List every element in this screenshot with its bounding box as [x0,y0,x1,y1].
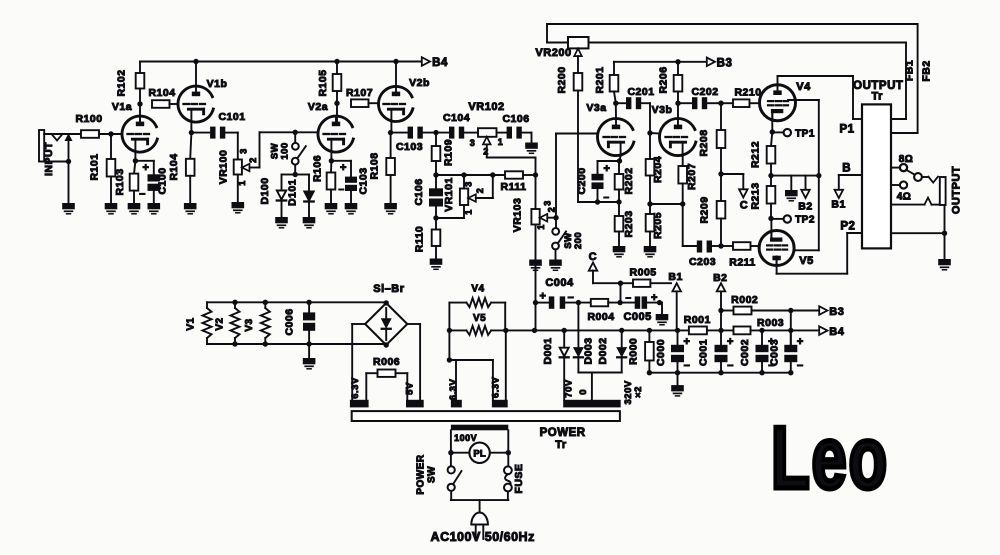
svg-text:3: 3 [470,138,476,148]
svg-text:6.3V: 6.3V [448,379,459,401]
svg-text:R200: R200 [556,66,568,93]
svg-text:TP1: TP1 [795,129,815,140]
svg-text:P1: P1 [839,124,854,136]
svg-text:FB1: FB1 [904,60,916,81]
svg-text:1: 1 [536,224,546,230]
svg-text:R100: R100 [75,113,102,125]
svg-text:2: 2 [547,207,557,213]
svg-text:VR102: VR102 [468,101,504,113]
svg-text:R211: R211 [729,257,756,269]
svg-text:R108: R108 [369,152,381,179]
svg-text:–: – [684,360,691,372]
svg-text:C203: C203 [689,256,716,268]
svg-text:R109: R109 [443,139,455,166]
svg-text:V2a: V2a [308,101,328,113]
svg-text:R207: R207 [686,163,698,190]
svg-text:3: 3 [543,200,553,206]
svg-text:V2: V2 [215,317,226,330]
svg-text:POWER: POWER [540,427,586,439]
svg-text:C103: C103 [396,141,423,153]
svg-text:R210: R210 [734,87,761,99]
svg-text:R001: R001 [684,314,711,326]
svg-text:C101: C101 [218,111,245,123]
svg-text:5V: 5V [404,382,415,395]
svg-text:R005: R005 [630,267,657,279]
svg-text:–: – [727,360,734,372]
svg-text:Leo: Leo [771,410,889,508]
svg-text:–: – [797,360,804,372]
svg-text:100V: 100V [454,433,477,443]
svg-text:+: + [143,162,150,174]
svg-text:V4: V4 [796,81,811,93]
svg-text:C104: C104 [443,112,470,124]
svg-text:R106: R106 [312,155,324,182]
svg-text:–: – [625,293,631,304]
svg-text:C004: C004 [545,277,574,289]
svg-text:C: C [740,200,748,212]
svg-text:R102: R102 [116,69,128,96]
svg-text:INPUT: INPUT [43,142,55,176]
svg-text:–: – [338,184,344,195]
svg-text:R209: R209 [699,196,711,223]
svg-text:C100: C100 [157,167,169,194]
svg-text:2: 2 [475,188,485,194]
svg-text:Tr: Tr [871,91,883,103]
svg-text:PL: PL [473,449,486,460]
svg-text:D100: D100 [259,177,271,204]
svg-text:R111: R111 [501,181,527,193]
svg-text:100: 100 [280,142,291,159]
svg-text:R104: R104 [168,153,180,180]
svg-text:R104: R104 [148,87,175,99]
svg-text:R103: R103 [114,168,126,195]
svg-text:B2: B2 [798,201,812,213]
svg-text:+: + [540,291,547,303]
svg-text:200: 200 [573,232,584,249]
svg-text:8Ω: 8Ω [899,154,914,165]
svg-text:FUSE: FUSE [513,464,525,494]
svg-text:R002: R002 [731,294,758,306]
svg-text:TP2: TP2 [795,215,815,226]
svg-text:D002: D002 [597,337,609,364]
svg-text:+: + [727,336,734,348]
svg-text:V3: V3 [244,318,255,331]
svg-text:R107: R107 [346,87,373,99]
svg-text:D003: D003 [582,337,594,364]
svg-text:70V: 70V [564,379,575,398]
svg-text:POWER: POWER [416,454,427,495]
svg-text:D001: D001 [542,337,554,364]
svg-text:R203: R203 [623,210,635,237]
svg-text:6.3V: 6.3V [490,376,501,398]
svg-text:C005: C005 [623,311,651,323]
svg-text:V5: V5 [473,313,486,324]
svg-text:R004: R004 [587,311,614,323]
svg-text:Tr: Tr [555,439,567,451]
svg-text:D101: D101 [287,179,299,206]
svg-text:B4: B4 [432,57,448,69]
svg-text:R101: R101 [89,153,101,180]
svg-text:B: B [842,163,851,175]
svg-text:R003: R003 [757,317,784,329]
svg-text:R212: R212 [750,141,762,168]
svg-text:R201: R201 [594,66,606,93]
svg-text:R006: R006 [373,356,400,368]
svg-text:C000: C000 [655,339,667,366]
svg-text:3: 3 [239,148,249,154]
svg-text:V5: V5 [799,255,813,267]
svg-text:V1a: V1a [112,101,132,113]
svg-text:B3: B3 [829,306,844,318]
svg-text:OUTPUT: OUTPUT [951,166,963,214]
svg-text:B3: B3 [717,58,733,70]
svg-text:VR101: VR101 [443,177,455,212]
svg-text:VR103: VR103 [512,198,524,233]
svg-text:VR200: VR200 [535,47,571,59]
svg-text:AC100V 50/60Hz: AC100V 50/60Hz [431,530,535,544]
svg-text:B1: B1 [831,199,845,211]
svg-text:1: 1 [498,137,504,147]
svg-text:×2: ×2 [633,386,644,398]
svg-text:R206: R206 [658,66,670,93]
svg-text:B4: B4 [829,326,844,338]
svg-text:2: 2 [248,157,258,163]
svg-text:C001: C001 [698,339,710,366]
svg-text:R000: R000 [627,338,639,365]
svg-text:C200: C200 [576,167,588,194]
svg-text:SW: SW [427,466,438,483]
svg-text:R204: R204 [652,156,664,183]
svg-text:V4: V4 [471,284,484,295]
svg-text:+: + [797,336,804,348]
svg-text:R205: R205 [652,212,664,239]
svg-text:VR100: VR100 [218,150,230,185]
svg-text:+: + [684,336,691,348]
svg-text:1: 1 [237,180,247,186]
svg-text:R110: R110 [414,226,426,253]
svg-text:B1: B1 [668,271,682,283]
svg-text:C003: C003 [769,339,781,366]
svg-text:6.3V: 6.3V [350,377,361,399]
svg-text:C106: C106 [502,113,529,125]
svg-text:V3a: V3a [586,102,606,114]
svg-text:V3b: V3b [652,104,673,116]
svg-text:R105: R105 [317,69,329,96]
svg-text:3: 3 [464,181,474,187]
svg-text:C201: C201 [627,86,654,98]
svg-text:R202: R202 [623,167,635,194]
svg-text:C006: C006 [284,308,296,335]
svg-text:P2: P2 [840,221,855,233]
svg-text:B2: B2 [713,272,727,284]
svg-text:V2b: V2b [409,77,430,89]
svg-text:+: + [604,163,611,175]
svg-text:C106: C106 [413,178,425,205]
svg-text:–: – [139,188,146,200]
svg-text:V1: V1 [186,317,197,330]
svg-text:R213: R213 [750,182,762,209]
svg-text:4Ω: 4Ω [897,192,912,203]
svg-text:+: + [340,162,347,174]
svg-text:C002: C002 [739,339,751,366]
svg-text:C202: C202 [691,86,718,98]
svg-text:0: 0 [578,389,589,395]
svg-text:R208: R208 [698,129,710,156]
svg-text:1: 1 [464,209,474,215]
svg-text:Si–Br: Si–Br [373,283,404,295]
svg-text:FB2: FB2 [921,60,933,81]
svg-text:V1b: V1b [207,78,228,90]
